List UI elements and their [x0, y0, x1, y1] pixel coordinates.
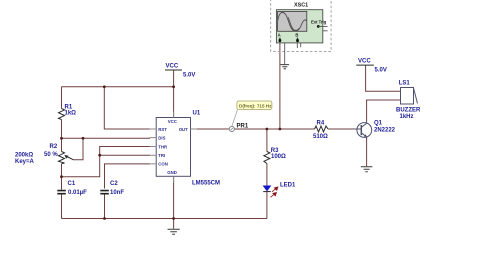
svg-text:U1: U1	[193, 110, 201, 116]
svg-text:2N2222: 2N2222	[374, 127, 396, 133]
svg-text:GND: GND	[167, 170, 177, 175]
svg-text:THR: THR	[158, 144, 168, 149]
svg-text:LED1: LED1	[280, 183, 296, 189]
svg-text:10nF: 10nF	[110, 190, 124, 196]
svg-text:100Ω: 100Ω	[271, 154, 286, 160]
svg-text:Ext Trig: Ext Trig	[311, 19, 327, 24]
svg-text:C1: C1	[68, 181, 76, 187]
svg-text:TRI: TRI	[158, 153, 165, 158]
svg-text:OUT: OUT	[179, 127, 188, 132]
svg-text:B: B	[295, 33, 298, 38]
svg-text:Q1: Q1	[374, 120, 383, 126]
svg-text:DIS: DIS	[158, 135, 165, 140]
svg-text:R2: R2	[50, 144, 58, 150]
svg-text:0.01µF: 0.01µF	[68, 190, 87, 196]
svg-text:Key=A: Key=A	[15, 159, 35, 165]
svg-text:PR1: PR1	[237, 124, 249, 130]
svg-text:1kHz: 1kHz	[400, 114, 414, 120]
svg-text:C2: C2	[110, 181, 118, 187]
svg-text:LS1: LS1	[399, 80, 411, 86]
svg-text:R4: R4	[317, 120, 325, 126]
svg-text:A: A	[278, 33, 281, 38]
svg-text:5.0V: 5.0V	[375, 68, 387, 74]
svg-text:XSC1: XSC1	[294, 2, 308, 8]
svg-text:VCC: VCC	[168, 119, 177, 124]
svg-text:200kΩ: 200kΩ	[15, 152, 33, 158]
svg-text:RST: RST	[158, 127, 167, 132]
svg-text:VCC: VCC	[166, 63, 179, 69]
svg-text:5.0V: 5.0V	[183, 72, 195, 78]
svg-text:LM555CM: LM555CM	[192, 180, 220, 186]
svg-text:BUZZER: BUZZER	[396, 108, 421, 114]
svg-text:510Ω: 510Ω	[313, 134, 328, 140]
svg-text:50 %: 50 %	[44, 152, 58, 158]
svg-text:1kΩ: 1kΩ	[65, 111, 77, 117]
svg-text:D(freq): 715 Hz: D(freq): 715 Hz	[239, 103, 272, 108]
svg-text:VCC: VCC	[358, 59, 371, 65]
svg-text:CON: CON	[158, 162, 168, 167]
